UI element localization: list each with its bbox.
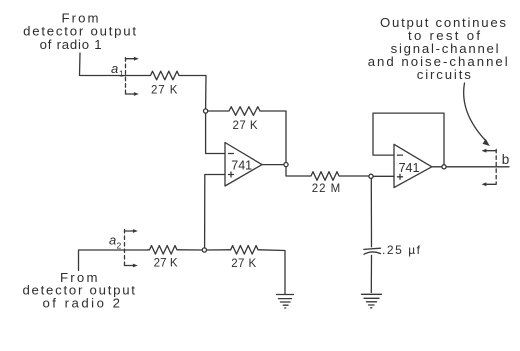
- svg-text:22 M: 22 M: [312, 183, 341, 195]
- wire N4 to U2 non-inverting input: [373, 175, 394, 177]
- svg-text:2: 2: [117, 241, 122, 251]
- op-amp U2 741: [394, 144, 432, 187]
- annotation: Output continues to rest of circuits: [368, 15, 508, 82]
- node N1 (junction at U1 inverting input): [204, 109, 208, 113]
- ground (below capacitor C1): [362, 294, 382, 308]
- svg-text:27 K: 27 K: [233, 120, 258, 132]
- annotation: From detector output of radio 2: [22, 270, 135, 311]
- wire from radio-1 text to node a1 and resistor R1: [80, 53, 149, 76]
- wire R2 right end down to output node N2: [285, 111, 287, 163]
- wire N2 down to resistor R5: [286, 167, 309, 176]
- svg-text:a: a: [111, 61, 118, 76]
- svg-text:741: 741: [399, 161, 420, 175]
- node N4 (junction at U2 non-inverting input): [369, 174, 373, 178]
- svg-text:of radio 1: of radio 1: [40, 37, 102, 52]
- wire U2 feedback loop (output to inverting input): [373, 113, 444, 165]
- node N3 (junction at U1 non-inverting path): [202, 248, 206, 252]
- leader arrow from annotation to output b: [464, 83, 490, 146]
- op-amp U1 741: [225, 143, 262, 187]
- wire R1 to node N1: [181, 76, 206, 109]
- svg-text:27 K: 27 K: [231, 258, 256, 270]
- wire from radio-2 text to node a2 and resistor R3: [79, 250, 148, 271]
- svg-text:741: 741: [231, 159, 252, 173]
- svg-text:.25 µf: .25 µf: [382, 243, 421, 257]
- ground (below resistor R4): [277, 295, 294, 309]
- resistor R4 27K: [229, 246, 260, 271]
- svg-text:of radio 2: of radio 2: [42, 296, 120, 311]
- resistor R2 27K feedback: [208, 107, 286, 132]
- annotation: From detector output of radio 1: [23, 11, 136, 53]
- resistor R3 27K: [148, 246, 180, 270]
- wire R4 to ground: [260, 250, 285, 294]
- svg-text:27 K: 27 K: [154, 258, 178, 270]
- svg-text:1: 1: [119, 69, 124, 79]
- node b (output connection marker): [482, 149, 510, 186]
- wire N3 up to U1 non-inverting input: [205, 175, 225, 248]
- node N5 (U2 output junction): [442, 165, 446, 169]
- wire N3 to resistor R4: [207, 249, 229, 251]
- wire N1 to U1 inverting input: [206, 113, 225, 153]
- node a1 (connection point marker): [111, 57, 139, 96]
- wire N5 to output b: [446, 166, 509, 168]
- capacitor C1 .25uf: [364, 178, 421, 292]
- svg-text:b: b: [502, 152, 510, 167]
- svg-text:27 K: 27 K: [151, 85, 178, 97]
- resistor R5 22M: [309, 172, 341, 195]
- wire U1 output to node N2: [262, 164, 284, 166]
- svg-text:a: a: [109, 233, 116, 248]
- wire R5 to node N4: [341, 175, 369, 177]
- wire U2 output to node N5: [432, 166, 442, 168]
- resistor R1 27K: [149, 71, 182, 96]
- node a2 (connection point marker): [109, 229, 138, 267]
- node N2 (U1 output junction): [284, 163, 288, 167]
- wire R3 to node N3: [179, 249, 202, 251]
